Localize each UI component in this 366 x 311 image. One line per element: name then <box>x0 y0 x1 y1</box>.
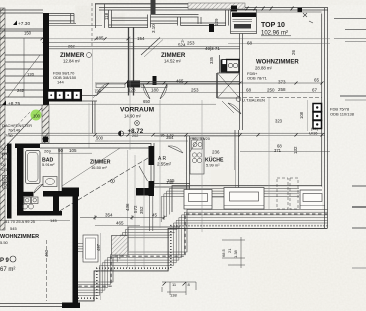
svg-text:118: 118 <box>104 12 109 20</box>
svg-text:96: 96 <box>192 136 197 141</box>
svg-text:702: 702 <box>95 89 101 93</box>
svg-text:70/140: 70/140 <box>8 128 21 133</box>
shaft black strip <box>221 60 227 73</box>
kueche bottom <box>186 196 240 198</box>
svg-text:465: 465 <box>116 221 124 226</box>
AR / kueche top wall <box>154 132 240 134</box>
construction verticals <box>101 36 308 300</box>
door threshold B <box>141 84 167 88</box>
top9 dashed line <box>46 240 48 301</box>
svg-text:258: 258 <box>278 87 286 92</box>
bathtub <box>26 151 41 184</box>
bad left wall black <box>17 148 24 211</box>
jamb post <box>153 76 157 85</box>
svg-text:+7.30: +7.30 <box>18 21 30 27</box>
kueche right wall <box>234 130 236 210</box>
svg-text:120: 120 <box>27 72 35 77</box>
top outer wall double line <box>99 7 328 9</box>
svg-text:373: 373 <box>278 80 286 85</box>
bay 2 top pair <box>151 14 199 16</box>
svg-text:572: 572 <box>133 205 138 213</box>
svg-text:95: 95 <box>161 134 165 138</box>
svg-text:129: 129 <box>214 18 219 26</box>
wc toilet <box>23 204 28 209</box>
svg-text:100: 100 <box>33 113 41 118</box>
svg-text:352: 352 <box>139 206 144 214</box>
level line across <box>8 132 325 134</box>
top roof edge line <box>95 3 245 5</box>
bad door leaf <box>34 184 43 193</box>
wall dim ticks top <box>246 7 294 11</box>
kitchen counter <box>190 138 204 174</box>
svg-text:7.30: 7.30 <box>5 133 14 138</box>
stair steps <box>5 54 43 56</box>
svg-text:154: 154 <box>137 36 145 41</box>
wohnzimmer door <box>228 103 241 114</box>
dim line left mid <box>49 152 92 154</box>
right edge sheet fragments <box>334 19 366 269</box>
zimmer C right wall black lower <box>149 181 155 196</box>
svg-text:202: 202 <box>132 134 138 138</box>
svg-text:463: 463 <box>44 249 49 257</box>
wall nub black <box>136 188 149 196</box>
washbasin <box>43 177 57 187</box>
svg-text:145: 145 <box>50 218 57 223</box>
zimmer B bottom wall <box>128 81 240 83</box>
kitchen stove burners <box>192 153 196 157</box>
svg-text:105: 105 <box>69 148 77 153</box>
svg-text:26: 26 <box>291 49 296 55</box>
chimney flue 2 <box>57 92 64 100</box>
band A run2 <box>128 227 180 251</box>
svg-text:138: 138 <box>170 293 177 298</box>
dashed construction vertical <box>91 3 93 46</box>
hatched strip on top wall <box>188 3 245 9</box>
svg-text:253: 253 <box>191 88 199 93</box>
survey point circle in zimmer C <box>111 179 115 183</box>
bay 2 shelf pair <box>151 20 178 22</box>
right outer wall double line <box>324 8 326 228</box>
chimney flue 3 <box>65 92 72 100</box>
left shaft wall black <box>7 144 12 219</box>
svg-text:ODB 110/138: ODB 110/138 <box>330 112 355 117</box>
bad bottom wall black <box>24 192 34 197</box>
right sill step <box>299 187 322 210</box>
stair landing line <box>0 104 43 106</box>
dormer 2 <box>224 188 264 210</box>
kueche door leaf <box>190 139 198 152</box>
svg-text:U.T.BALKEN: U.T.BALKEN <box>242 98 265 103</box>
svg-text:14.52 m²: 14.52 m² <box>164 59 182 64</box>
svg-text:650: 650 <box>143 99 151 104</box>
stair run diagonal <box>8 55 40 97</box>
svg-text:185: 185 <box>96 36 104 41</box>
svg-text:128: 128 <box>128 88 136 93</box>
svg-text:12.84 m²: 12.84 m² <box>63 59 81 64</box>
svg-text:436: 436 <box>125 203 130 211</box>
svg-text:68.5: 68.5 <box>221 248 226 257</box>
left outer hatched wall <box>0 8 5 230</box>
black post right corner <box>298 8 303 13</box>
tick marks on dim lines <box>41 37 324 219</box>
svg-text:21: 21 <box>227 248 232 253</box>
top wall corner post black <box>231 6 237 12</box>
left column lines above stair <box>95 4 97 28</box>
zimmer A loggia recess lines <box>47 13 74 15</box>
svg-text:68: 68 <box>246 88 252 93</box>
chimney flue 4 <box>74 92 81 100</box>
vorraum dim lines <box>95 82 322 84</box>
kueche left wall <box>186 136 188 200</box>
wall hatched below <box>42 105 49 143</box>
svg-text:+8.75: +8.75 <box>8 101 20 107</box>
svg-text:354: 354 <box>105 213 113 218</box>
svg-text:242: 242 <box>17 88 25 93</box>
dashed roof rects <box>277 178 288 209</box>
band A run1 <box>172 186 322 212</box>
svg-text:65: 65 <box>314 78 320 83</box>
chimney flue 1 <box>48 92 55 100</box>
zimmer A door leaf <box>97 83 109 95</box>
svg-text:500: 500 <box>96 136 104 141</box>
svg-text:108: 108 <box>299 111 304 119</box>
svg-text:5.91m²: 5.91m² <box>42 162 55 167</box>
svg-text:16.50 m²: 16.50 m² <box>91 165 107 170</box>
stair top wall lines <box>0 9 43 11</box>
dormer 1 <box>184 190 212 210</box>
svg-text:371: 371 <box>274 148 282 153</box>
svg-text:253: 253 <box>187 41 195 46</box>
3-flue stack right wall <box>313 104 322 129</box>
svg-text:ODB 78/71: ODB 78/71 <box>247 76 268 81</box>
svg-text:150: 150 <box>24 30 32 35</box>
bay 2 inner verticals <box>197 17 199 24</box>
bad right wall <box>58 148 60 192</box>
beam dashed across living room <box>243 97 322 99</box>
top9 bottom wall <box>0 303 80 305</box>
green highlighter dot <box>31 110 42 121</box>
gray pencil strips top <box>76 6 102 24</box>
dim detail bottom middle <box>162 237 245 295</box>
left box 1 <box>83 235 98 262</box>
left box 2 hatched <box>112 236 129 256</box>
svg-text:132: 132 <box>293 146 298 154</box>
svg-text:49|3 71: 49|3 71 <box>205 46 220 51</box>
svg-text:524: 524 <box>178 43 186 48</box>
roof slope dash in zimmer C <box>58 158 148 212</box>
flue block small square <box>222 60 227 65</box>
zigzag step 4 up <box>225 10 227 26</box>
svg-text:335: 335 <box>209 56 214 64</box>
bad top wall black <box>15 144 40 149</box>
svg-text:67: 67 <box>312 88 318 93</box>
svg-text:VORRAUM: VORRAUM <box>120 107 155 114</box>
svg-text:3.10: 3.10 <box>151 24 156 33</box>
zimmer A bottom wall chimney black <box>45 89 82 102</box>
svg-text:180: 180 <box>151 88 159 93</box>
svg-text:U/16: U/16 <box>309 131 318 136</box>
planter nested rects on wall <box>231 10 257 34</box>
svg-text:68: 68 <box>247 41 253 46</box>
svg-text:5.99 m²: 5.99 m² <box>206 163 220 168</box>
svg-text:545: 545 <box>10 226 17 231</box>
left shaft boxes <box>3 176 9 182</box>
svg-text:DU: DU <box>1 163 7 167</box>
zimmer C top wall <box>62 143 151 145</box>
zimmer C door leaf <box>139 166 148 181</box>
svg-text:2.55m²: 2.55m² <box>157 162 172 167</box>
svg-text:497: 497 <box>96 243 101 251</box>
svg-text:144: 144 <box>57 80 64 85</box>
roof slope diagonal in zimmer B <box>141 38 160 56</box>
stair left wall black <box>43 13 49 105</box>
svg-text:250: 250 <box>267 88 275 93</box>
wall thin continuation below <box>148 196 150 231</box>
svg-text:5.50: 5.50 <box>0 240 9 245</box>
bay 3 bottom pair <box>181 22 227 24</box>
black post mid <box>209 24 214 32</box>
right wall inner face <box>321 14 323 189</box>
svg-text:45: 45 <box>152 213 158 218</box>
svg-text:14.90 m²: 14.90 m² <box>124 114 142 119</box>
wc fixtures squares <box>24 197 31 204</box>
top9 right wall black <box>73 196 79 305</box>
svg-text:81 70 25 A 99 25: 81 70 25 A 99 25 <box>5 219 36 224</box>
stair mid rail <box>23 38 25 97</box>
svg-text:1.38: 1.38 <box>233 249 238 258</box>
wall left of shaft <box>216 73 218 98</box>
svg-text:90: 90 <box>58 148 64 153</box>
svg-text:P 9: P 9 <box>0 258 10 264</box>
AR left wall <box>150 143 152 186</box>
zimmer A / B partition wall <box>128 27 130 96</box>
small black shaft on line <box>43 137 48 143</box>
shaft square with cross <box>218 73 240 98</box>
vorraum west wall <box>92 101 94 134</box>
kitchen sink <box>192 140 203 149</box>
dach diagonal <box>4 108 42 148</box>
zimmer C right wall black upper <box>149 146 155 165</box>
svg-text:43/17: 43/17 <box>1 152 10 156</box>
dim lines bottom left <box>0 215 164 226</box>
svg-text:262: 262 <box>68 44 75 49</box>
door threshold A <box>96 84 125 88</box>
svg-text:WC: WC <box>1 147 7 151</box>
svg-text:354: 354 <box>166 135 174 140</box>
svg-text:28.88 m²: 28.88 m² <box>255 66 273 71</box>
svg-text:TOP 10: TOP 10 <box>261 22 285 29</box>
svg-text:236: 236 <box>212 150 220 155</box>
zigzag step 2 up <box>147 15 149 28</box>
parapet zigzag step 1 down <box>108 10 110 28</box>
svg-text:165: 165 <box>167 178 175 183</box>
svg-text:43/17: 43/17 <box>1 168 10 172</box>
AR bottom wall <box>151 183 190 185</box>
AR door <box>168 146 183 153</box>
svg-text:269: 269 <box>44 149 51 154</box>
dim line upper <box>42 38 330 40</box>
bay 1 bottom pair <box>109 24 149 26</box>
kitchen gray box <box>211 170 235 194</box>
dark chimney bar top <box>151 0 156 14</box>
svg-text:323: 323 <box>275 119 283 124</box>
band A corner stubs at top9 <box>78 244 91 253</box>
svg-text:67 m²: 67 m² <box>0 267 15 273</box>
svg-text:465: 465 <box>176 79 184 84</box>
bay 1 shelf pair <box>112 17 148 19</box>
zimmer A bottom wall thin part <box>82 95 97 97</box>
wall foot black between doors <box>127 81 140 88</box>
svg-text:53/20: 53/20 <box>200 136 211 141</box>
rooms top wall inner line <box>47 45 240 47</box>
zigzag step 3 down <box>177 17 179 26</box>
chimney block round flues <box>227 60 240 73</box>
zimmer B door double leafs <box>143 84 150 99</box>
